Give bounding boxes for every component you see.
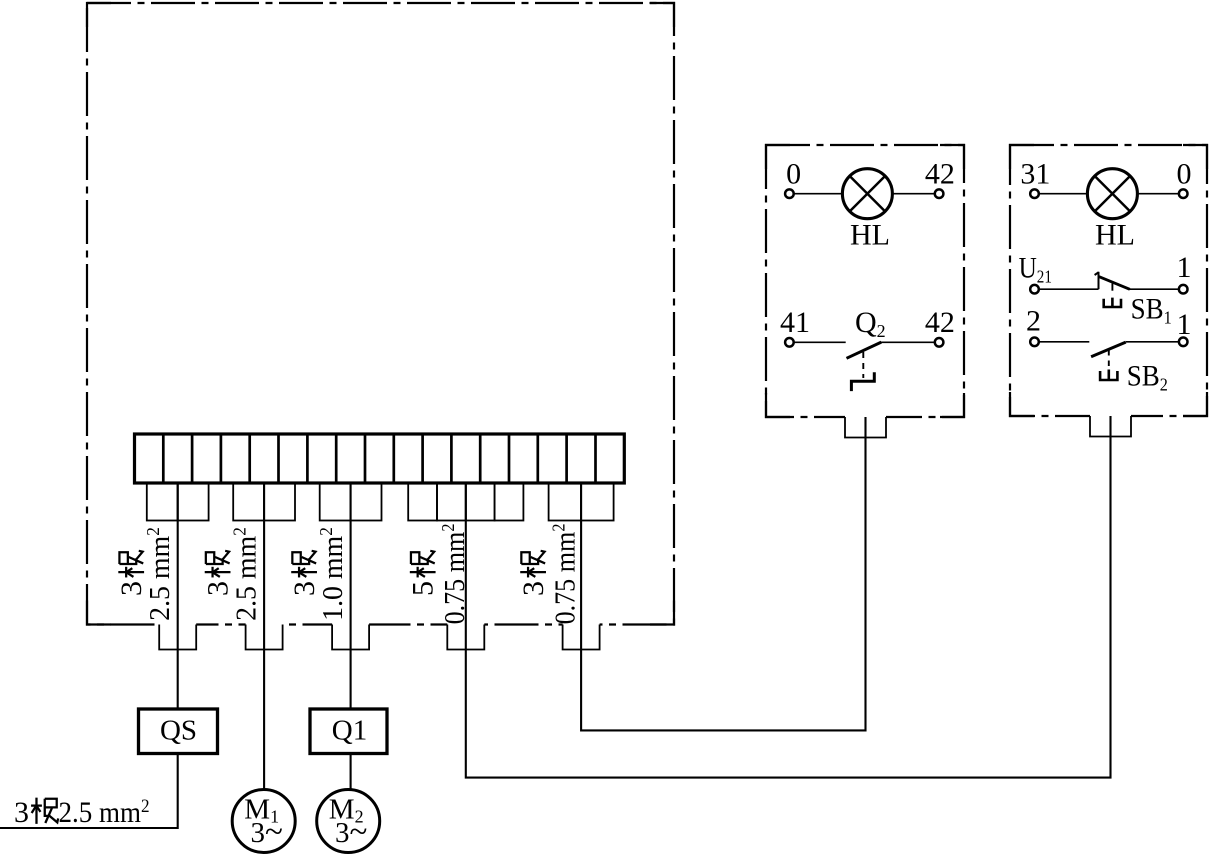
svg-text:0.75 mm2: 0.75 mm2 (438, 524, 471, 625)
svg-text:3: 3 (14, 796, 29, 829)
svg-text:41: 41 (780, 306, 810, 339)
svg-text:QS: QS (160, 715, 197, 747)
svg-text:2.5 mm2: 2.5 mm2 (59, 795, 150, 829)
svg-text:42: 42 (925, 306, 955, 339)
svg-text:HL: HL (850, 219, 890, 252)
svg-text:2: 2 (1026, 305, 1041, 338)
svg-text:3: 3 (517, 581, 550, 596)
svg-text:3~: 3~ (335, 814, 367, 850)
svg-text:3: 3 (115, 581, 148, 596)
svg-text:0: 0 (786, 158, 801, 191)
svg-text:2.5 mm2: 2.5 mm2 (143, 527, 176, 621)
svg-text:1: 1 (1177, 308, 1192, 341)
svg-text:42: 42 (925, 158, 955, 191)
svg-text:HL: HL (1095, 219, 1135, 252)
svg-text:3: 3 (202, 581, 235, 596)
svg-text:3: 3 (288, 581, 321, 596)
svg-text:Q1: Q1 (332, 715, 367, 747)
svg-text:0: 0 (1177, 158, 1192, 191)
svg-text:1: 1 (1177, 251, 1192, 284)
svg-text:0.75 mm2: 0.75 mm2 (548, 524, 581, 625)
svg-text:3~: 3~ (251, 814, 283, 850)
svg-text:1.0 mm2: 1.0 mm2 (316, 527, 349, 621)
svg-text:2.5 mm2: 2.5 mm2 (229, 527, 262, 621)
svg-text:5: 5 (407, 581, 440, 596)
svg-text:31: 31 (1020, 158, 1050, 191)
